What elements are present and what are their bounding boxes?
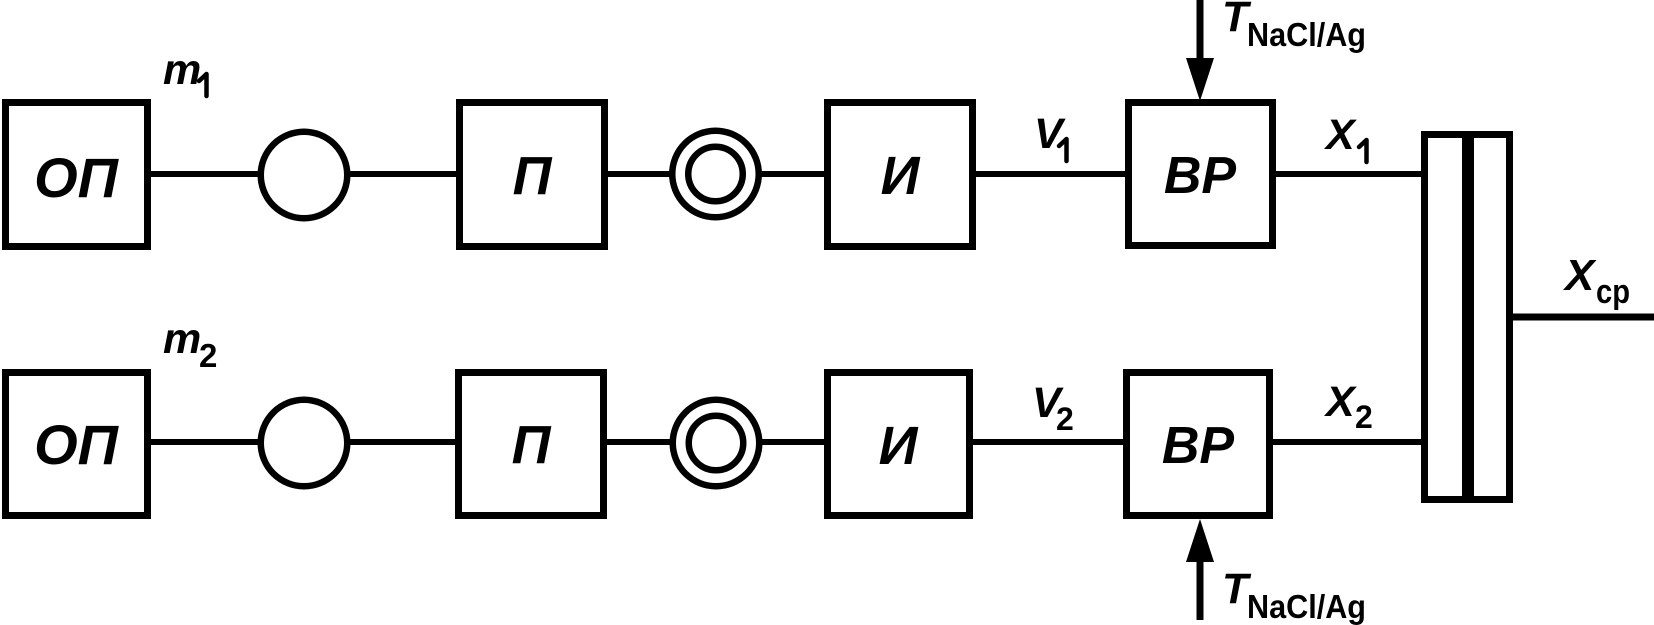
svg-text:ВР: ВР: [1164, 147, 1237, 205]
svg-text:NaCl/Ag: NaCl/Ag: [1247, 16, 1366, 53]
label Xcp: [1562, 251, 1630, 311]
wire double circle to И (top): [759, 171, 830, 177]
detector double circle (top): [672, 131, 759, 218]
svg-text:2: 2: [1056, 401, 1074, 437]
svg-text:X: X: [1324, 111, 1357, 159]
wire circle to П (top): [348, 171, 459, 177]
block ОП (top row, object of measurement): [6, 103, 148, 247]
svg-text:ВР: ВР: [1162, 417, 1235, 475]
sampler circle (bottom): [261, 400, 348, 487]
label V1: [1034, 110, 1067, 161]
wire П to double circle (bottom): [604, 439, 672, 445]
label m2: [163, 315, 217, 374]
wire ВР to averaging block, net X2 (bottom): [1270, 439, 1424, 445]
svg-text:2: 2: [199, 337, 217, 374]
svg-text:X: X: [1562, 251, 1597, 300]
wire double circle to И (bottom): [760, 439, 830, 445]
svg-text:NaCl/Ag: NaCl/Ag: [1247, 588, 1366, 625]
svg-text:П: П: [513, 146, 553, 206]
label m1: [163, 46, 207, 96]
svg-text:V: V: [1034, 110, 1066, 158]
label X1: [1324, 111, 1367, 162]
svg-text:ОП: ОП: [34, 413, 120, 476]
averaging block (right, rectangle with center bar): [1425, 131, 1510, 503]
label V2: [1032, 379, 1074, 437]
block П (bottom row): [459, 373, 604, 516]
wire И to ВР, net V1 (top): [973, 171, 1128, 177]
wire ОП to circle (bottom): [148, 439, 262, 445]
block И (bottom row): [828, 373, 970, 516]
sampler circle (top): [261, 132, 348, 219]
svg-text:X: X: [1324, 378, 1357, 426]
block П (top row): [460, 103, 605, 247]
label T NaCl/Ag (top): [1222, 0, 1366, 53]
svg-text:m: m: [163, 46, 201, 94]
wire ОП to circle (top): [148, 171, 262, 177]
arrow T into ВР top (downward): [1186, 0, 1214, 101]
wire output Xcp: [1513, 314, 1654, 321]
svg-text:И: И: [879, 416, 919, 476]
wire ВР to averaging block, net X1 (top): [1273, 171, 1424, 177]
block ВР (bottom row): [1127, 373, 1270, 516]
svg-text:ср: ср: [1596, 273, 1630, 311]
block И (top row): [828, 103, 973, 247]
svg-text:П: П: [512, 415, 552, 475]
arrow T into ВР bottom (upward): [1186, 519, 1214, 620]
block ОП (bottom row): [6, 373, 148, 516]
wire circle to П (bottom): [348, 439, 459, 445]
label X2: [1324, 378, 1373, 435]
wire П to double circle (top): [605, 171, 672, 177]
detector double circle (bottom): [673, 400, 760, 487]
svg-text:ОП: ОП: [34, 146, 120, 209]
svg-text:2: 2: [1355, 399, 1373, 435]
svg-text:m: m: [163, 315, 201, 363]
wire И to ВР, net V2 (bottom): [970, 439, 1126, 445]
svg-text:И: И: [881, 146, 921, 206]
block ВР (top row): [1129, 103, 1273, 246]
label T NaCl/Ag (bottom): [1222, 565, 1366, 625]
